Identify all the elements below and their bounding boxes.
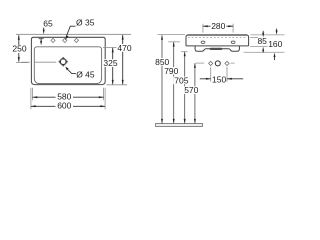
svg-text:705: 705: [174, 75, 188, 85]
svg-text:150: 150: [212, 74, 226, 84]
svg-text:Ø 45: Ø 45: [76, 70, 95, 80]
svg-text:250: 250: [12, 44, 26, 54]
svg-text:85: 85: [257, 36, 267, 46]
svg-text:Ø 35: Ø 35: [76, 18, 95, 28]
svg-text:325: 325: [103, 58, 117, 68]
svg-text:600: 600: [57, 101, 71, 111]
svg-text:65: 65: [43, 19, 53, 29]
svg-text:570: 570: [184, 85, 198, 95]
svg-text:160: 160: [268, 39, 282, 49]
svg-text:280: 280: [211, 21, 225, 31]
svg-text:470: 470: [117, 43, 131, 53]
svg-text:790: 790: [164, 66, 178, 76]
